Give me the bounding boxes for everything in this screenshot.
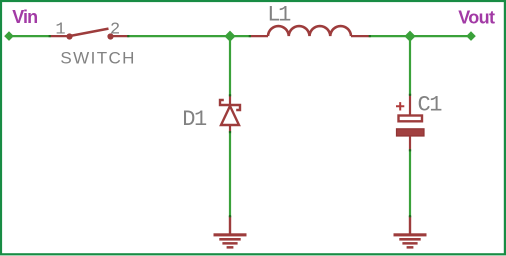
C1 negative pin — [409, 136, 411, 151]
D1 anode pin — [229, 125, 231, 132]
wire node A down to D1 — [229, 38, 231, 96]
svg-text:C1: C1 — [418, 93, 443, 118]
switch blade — [71, 29, 109, 36]
wire C1 to ground — [409, 150, 411, 217]
L1 winding arcs — [268, 26, 351, 36]
svg-text:Vin: Vin — [12, 7, 37, 27]
svg-text:SWITCH: SWITCH — [60, 49, 135, 68]
ground under D1 — [214, 216, 247, 249]
wire node B down to C1 — [409, 38, 411, 95]
switch pin 2 lead — [111, 35, 129, 37]
C1 positive pin — [409, 94, 411, 115]
diode D1 (schottky) — [220, 95, 240, 132]
L1 pin 2 lead — [351, 35, 370, 37]
svg-text:D1: D1 — [182, 107, 207, 132]
C1 top plate — [399, 116, 423, 122]
svg-text:L1: L1 — [267, 3, 291, 28]
wire D1 to ground — [229, 132, 231, 216]
pin-end junction dots — [49, 35, 412, 217]
C1 plus sign — [396, 102, 404, 110]
C1 bottom plate — [397, 129, 425, 136]
wire L1 to node B — [370, 35, 471, 37]
switch pin 1 lead — [50, 35, 70, 37]
ground under C1 — [394, 216, 427, 249]
switch SWITCH — [50, 29, 128, 40]
switch contact 1 — [66, 33, 72, 39]
inductor L1 — [250, 26, 370, 36]
wire Vin to switch — [9, 35, 50, 37]
node Vout endpoint — [466, 31, 476, 41]
switch contact 2 — [107, 33, 113, 39]
wire switch to node A — [128, 35, 250, 37]
node A junction (switch/L1/D1) — [224, 31, 235, 42]
D1 triangle — [221, 106, 239, 125]
node B junction (L1/C1/Vout) — [404, 31, 415, 42]
node Vin endpoint — [4, 31, 14, 41]
capacitor C1 (polarized) — [396, 94, 424, 151]
L1 pin 1 lead — [250, 35, 268, 37]
D1 schottky cathode bar — [220, 100, 240, 110]
svg-text:2: 2 — [110, 20, 120, 39]
D1 cathode pin — [229, 95, 231, 105]
svg-text:1: 1 — [55, 21, 65, 40]
svg-text:Vout: Vout — [458, 8, 495, 28]
